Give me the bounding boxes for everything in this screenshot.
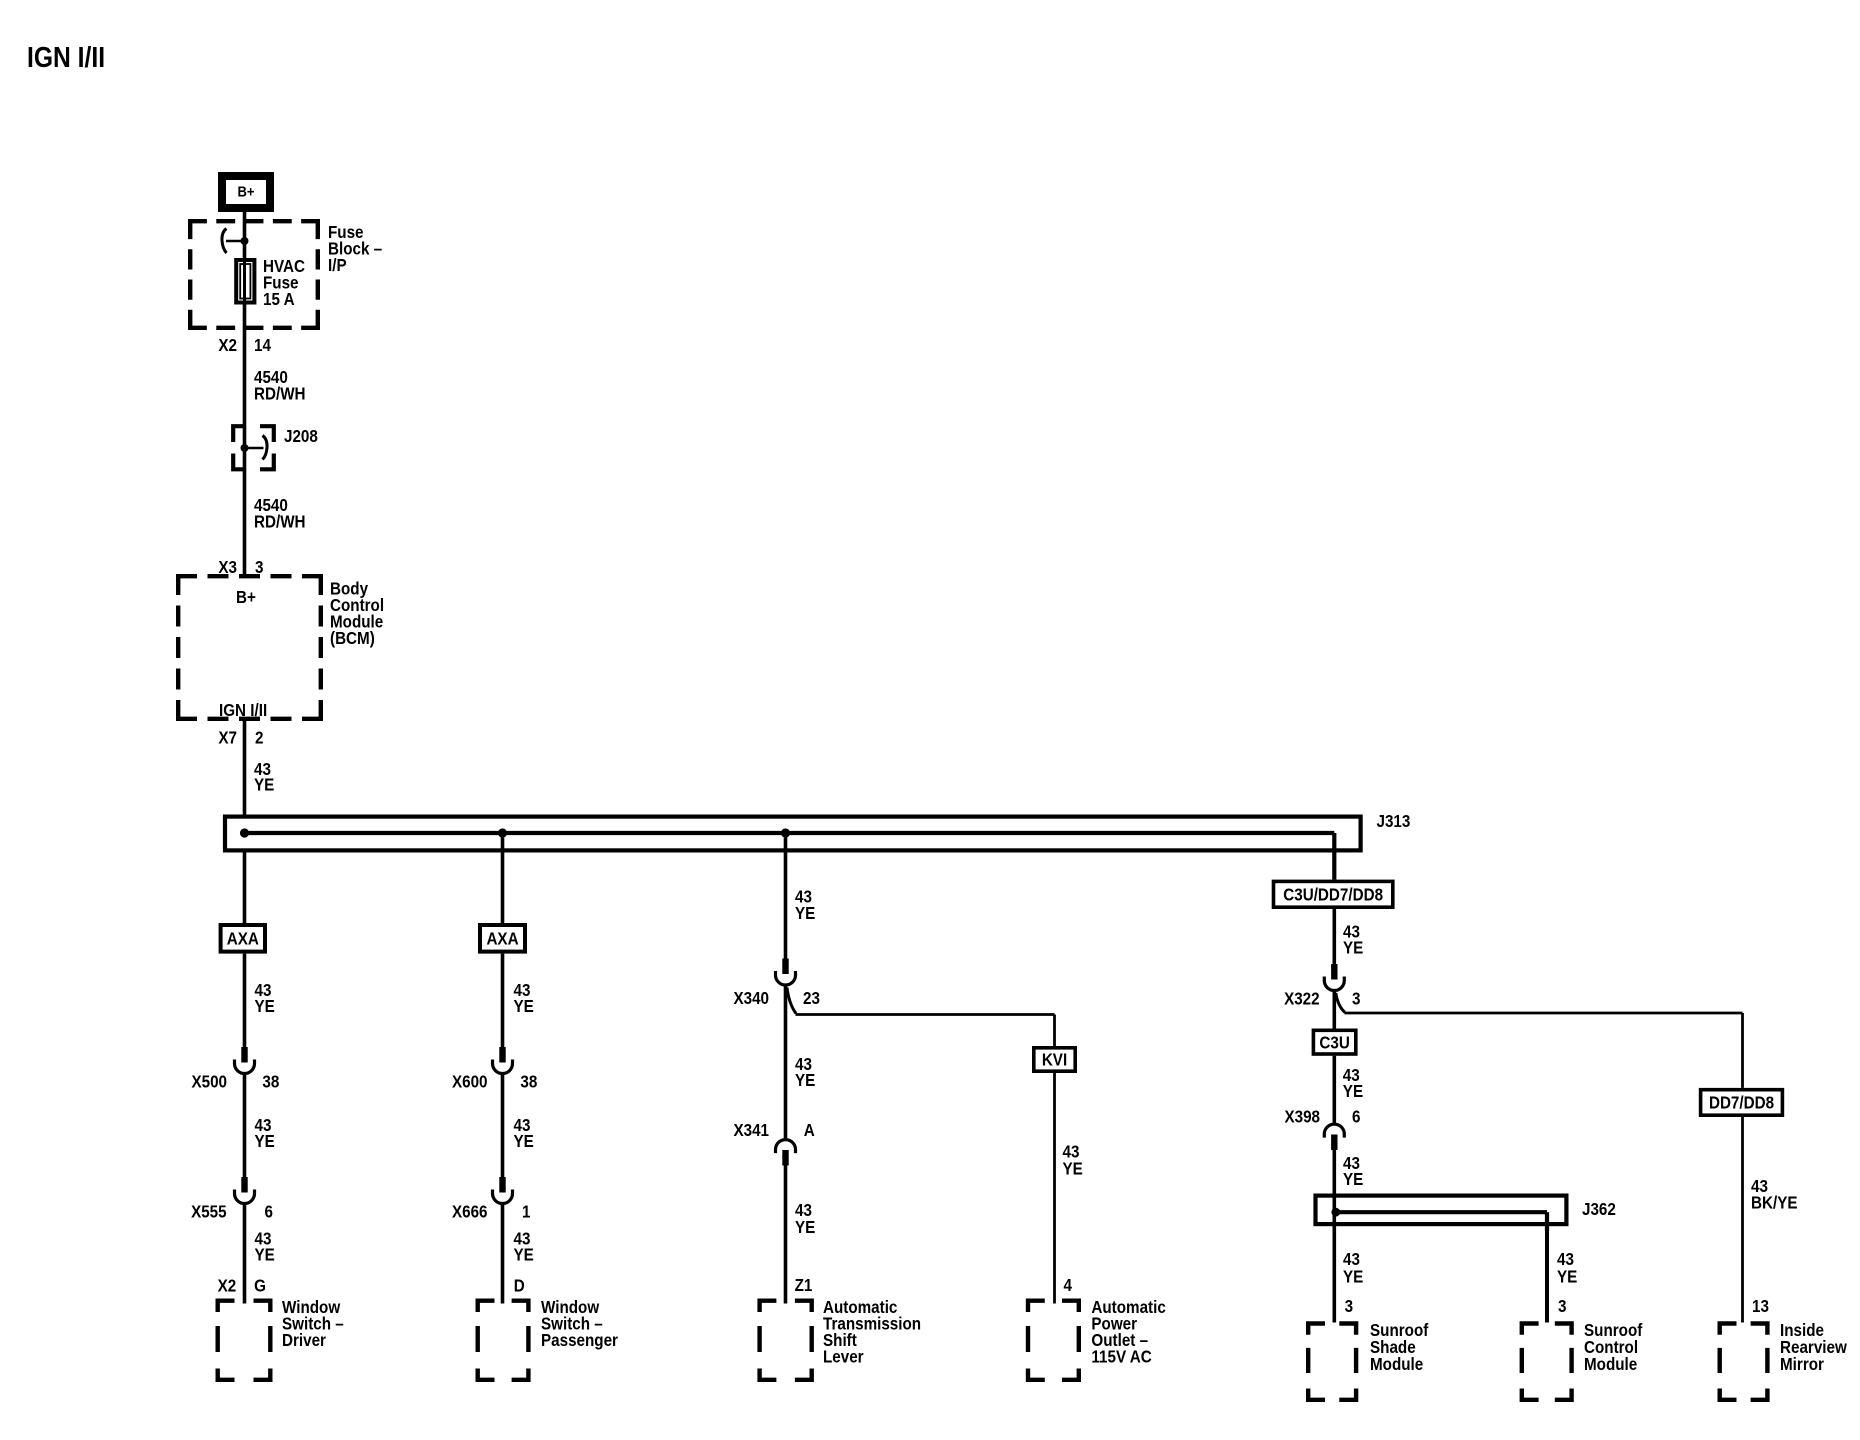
svg-text:X341: X341 — [733, 1121, 769, 1140]
wire B+ through fuse block to BCM — [243, 211, 247, 574]
svg-text:YE: YE — [1343, 1268, 1363, 1287]
wire X666 to Window Switch Passenger — [501, 1205, 505, 1304]
svg-text:X555: X555 — [191, 1203, 227, 1222]
svg-text:YE: YE — [1343, 1082, 1363, 1101]
svg-text:38: 38 — [262, 1073, 279, 1092]
svg-text:RD/WH: RD/WH — [254, 385, 306, 404]
svg-text:IGN I/II: IGN I/II — [27, 41, 105, 73]
svg-text:X340: X340 — [733, 989, 769, 1008]
svg-text:YE: YE — [514, 997, 534, 1016]
svg-text:13: 13 — [1752, 1297, 1769, 1316]
svg-text:X322: X322 — [1284, 989, 1320, 1008]
svg-text:43: 43 — [1343, 1250, 1360, 1269]
wire X341 to shift lever — [784, 1166, 788, 1304]
svg-text:RD/WH: RD/WH — [254, 512, 306, 531]
wire J313 to AXA col2 — [501, 833, 505, 923]
svg-text:X398: X398 — [1284, 1108, 1320, 1127]
clip symbol at fuse block input — [226, 240, 245, 243]
Automatic Power Outlet dashed box — [1028, 1301, 1079, 1380]
wire X600 to X666 — [501, 1075, 505, 1193]
svg-text:3: 3 — [1558, 1297, 1566, 1316]
wire KVI to power outlet — [1053, 1073, 1056, 1304]
splice pack J313 — [225, 817, 1361, 851]
svg-text:Driver: Driver — [282, 1331, 327, 1350]
fuse C3U/DD7/DD8 — [1274, 881, 1393, 907]
svg-text:AXA: AXA — [486, 930, 518, 949]
wire BCM to J313 — [243, 721, 247, 833]
wire C3U to X398 — [1333, 1056, 1337, 1124]
fuse AXA col2 — [480, 925, 525, 952]
fuse C3U — [1313, 1030, 1355, 1054]
connector X555 — [241, 1177, 247, 1193]
svg-text:YE: YE — [1557, 1268, 1577, 1287]
connector X666 — [499, 1177, 505, 1193]
svg-text:AXA: AXA — [227, 930, 259, 949]
fuse DD7/DD8 — [1701, 1090, 1783, 1116]
svg-text:Module: Module — [1370, 1355, 1423, 1374]
wire J313 to X340 — [784, 833, 788, 974]
wire AXA col1 to X500 — [243, 954, 247, 1063]
wire J362 to Sunroof Control Module — [1545, 1229, 1549, 1323]
wire J313 to AXA col1 — [243, 850, 247, 923]
svg-text:X2: X2 — [218, 1276, 237, 1295]
Sunroof Shade Module dashed box — [1308, 1324, 1356, 1400]
svg-text:14: 14 — [254, 336, 272, 355]
svg-text:YE: YE — [255, 1132, 275, 1151]
svg-text:Mirror: Mirror — [1780, 1355, 1825, 1374]
wire C3U/DD7/DD8 to X322 — [1333, 909, 1337, 980]
svg-text:B+: B+ — [237, 183, 254, 200]
connector X398 — [1324, 1124, 1344, 1138]
Window Switch - Driver dashed box — [218, 1301, 271, 1380]
branch wire X322 to DD7/DD8 — [1336, 993, 1345, 1012]
svg-text:YE: YE — [1063, 1159, 1083, 1178]
svg-text:(BCM): (BCM) — [330, 629, 375, 648]
svg-text:C3U: C3U — [1319, 1033, 1349, 1052]
svg-text:J362: J362 — [1582, 1200, 1616, 1219]
svg-text:6: 6 — [265, 1203, 273, 1222]
fuse HVAC Fuse 15 A — [236, 260, 254, 303]
svg-text:IGN I/II: IGN I/II — [219, 701, 267, 720]
Body Control Module dashed box — [176, 574, 323, 578]
svg-text:C3U/DD7/DD8: C3U/DD7/DD8 — [1283, 886, 1383, 905]
connector X340 — [782, 959, 788, 975]
fuse block dashed box Fuse Block - I/P — [188, 219, 320, 223]
Window Switch - Passenger dashed box — [478, 1301, 529, 1380]
connector X500 — [241, 1047, 247, 1063]
Sunroof Control Module dashed box — [1522, 1324, 1572, 1400]
wire DD7/DD8 to mirror — [1741, 1117, 1744, 1323]
svg-text:1: 1 — [522, 1203, 530, 1222]
connector X600 — [499, 1047, 505, 1063]
svg-text:23: 23 — [803, 989, 820, 1008]
svg-text:A: A — [804, 1121, 815, 1140]
svg-text:J313: J313 — [1377, 812, 1411, 831]
wire X340 to X341 — [784, 986, 788, 1139]
svg-text:I/P: I/P — [328, 256, 347, 275]
svg-text:YE: YE — [795, 904, 815, 923]
svg-text:38: 38 — [520, 1073, 537, 1092]
svg-text:YE: YE — [514, 1132, 534, 1151]
splice pack J362 — [1316, 1196, 1567, 1225]
wire X322 to C3U — [1333, 992, 1337, 1029]
svg-text:YE: YE — [795, 1218, 815, 1237]
svg-text:4: 4 — [1064, 1276, 1073, 1295]
connector X322 — [1331, 964, 1337, 980]
wire X500 to X555 — [243, 1075, 247, 1193]
svg-text:D: D — [514, 1276, 525, 1295]
branch wire X340 to KVI — [787, 988, 796, 1014]
splice J208 — [233, 426, 274, 469]
svg-text:X7: X7 — [218, 729, 237, 748]
svg-text:43: 43 — [1557, 1250, 1574, 1269]
svg-text:6: 6 — [1352, 1108, 1360, 1127]
wire X398 through J362 to Sunroof Shade Module — [1333, 1150, 1337, 1323]
svg-text:YE: YE — [1343, 938, 1363, 957]
svg-text:Module: Module — [1584, 1355, 1637, 1374]
svg-text:X600: X600 — [452, 1073, 488, 1092]
svg-text:J208: J208 — [284, 427, 318, 446]
svg-text:YE: YE — [255, 997, 275, 1016]
svg-text:YE: YE — [255, 1245, 275, 1264]
fuse AXA col1 — [221, 925, 265, 952]
svg-text:YE: YE — [795, 1071, 815, 1090]
svg-text:3: 3 — [1352, 989, 1360, 1008]
svg-text:15 A: 15 A — [263, 290, 295, 309]
power symbol B+ — [222, 176, 270, 208]
svg-text:Z1: Z1 — [795, 1276, 813, 1295]
svg-text:KVI: KVI — [1042, 1051, 1067, 1070]
svg-text:X666: X666 — [452, 1203, 488, 1222]
svg-text:115V AC: 115V AC — [1091, 1348, 1151, 1367]
svg-text:2: 2 — [255, 729, 263, 748]
svg-text:BK/YE: BK/YE — [1751, 1193, 1798, 1212]
svg-text:YE: YE — [1343, 1170, 1363, 1189]
wire X555 to Window Switch Driver — [243, 1205, 247, 1304]
svg-text:YE: YE — [514, 1245, 534, 1264]
svg-text:Lever: Lever — [823, 1348, 864, 1367]
Inside Rearview Mirror dashed box — [1720, 1324, 1768, 1400]
svg-text:B+: B+ — [236, 588, 256, 607]
svg-text:X500: X500 — [191, 1073, 227, 1092]
fuse KVI — [1034, 1048, 1075, 1071]
Automatic Transmission Shift Lever dashed box — [760, 1301, 812, 1380]
wire AXA col2 to X600 — [501, 954, 505, 1063]
svg-text:DD7/DD8: DD7/DD8 — [1709, 1094, 1774, 1113]
svg-text:X2: X2 — [218, 336, 237, 355]
svg-text:3: 3 — [1345, 1297, 1353, 1316]
svg-text:YE: YE — [254, 776, 274, 795]
connector X341 — [776, 1140, 796, 1154]
svg-text:G: G — [254, 1276, 266, 1295]
svg-text:Passenger: Passenger — [541, 1331, 619, 1350]
